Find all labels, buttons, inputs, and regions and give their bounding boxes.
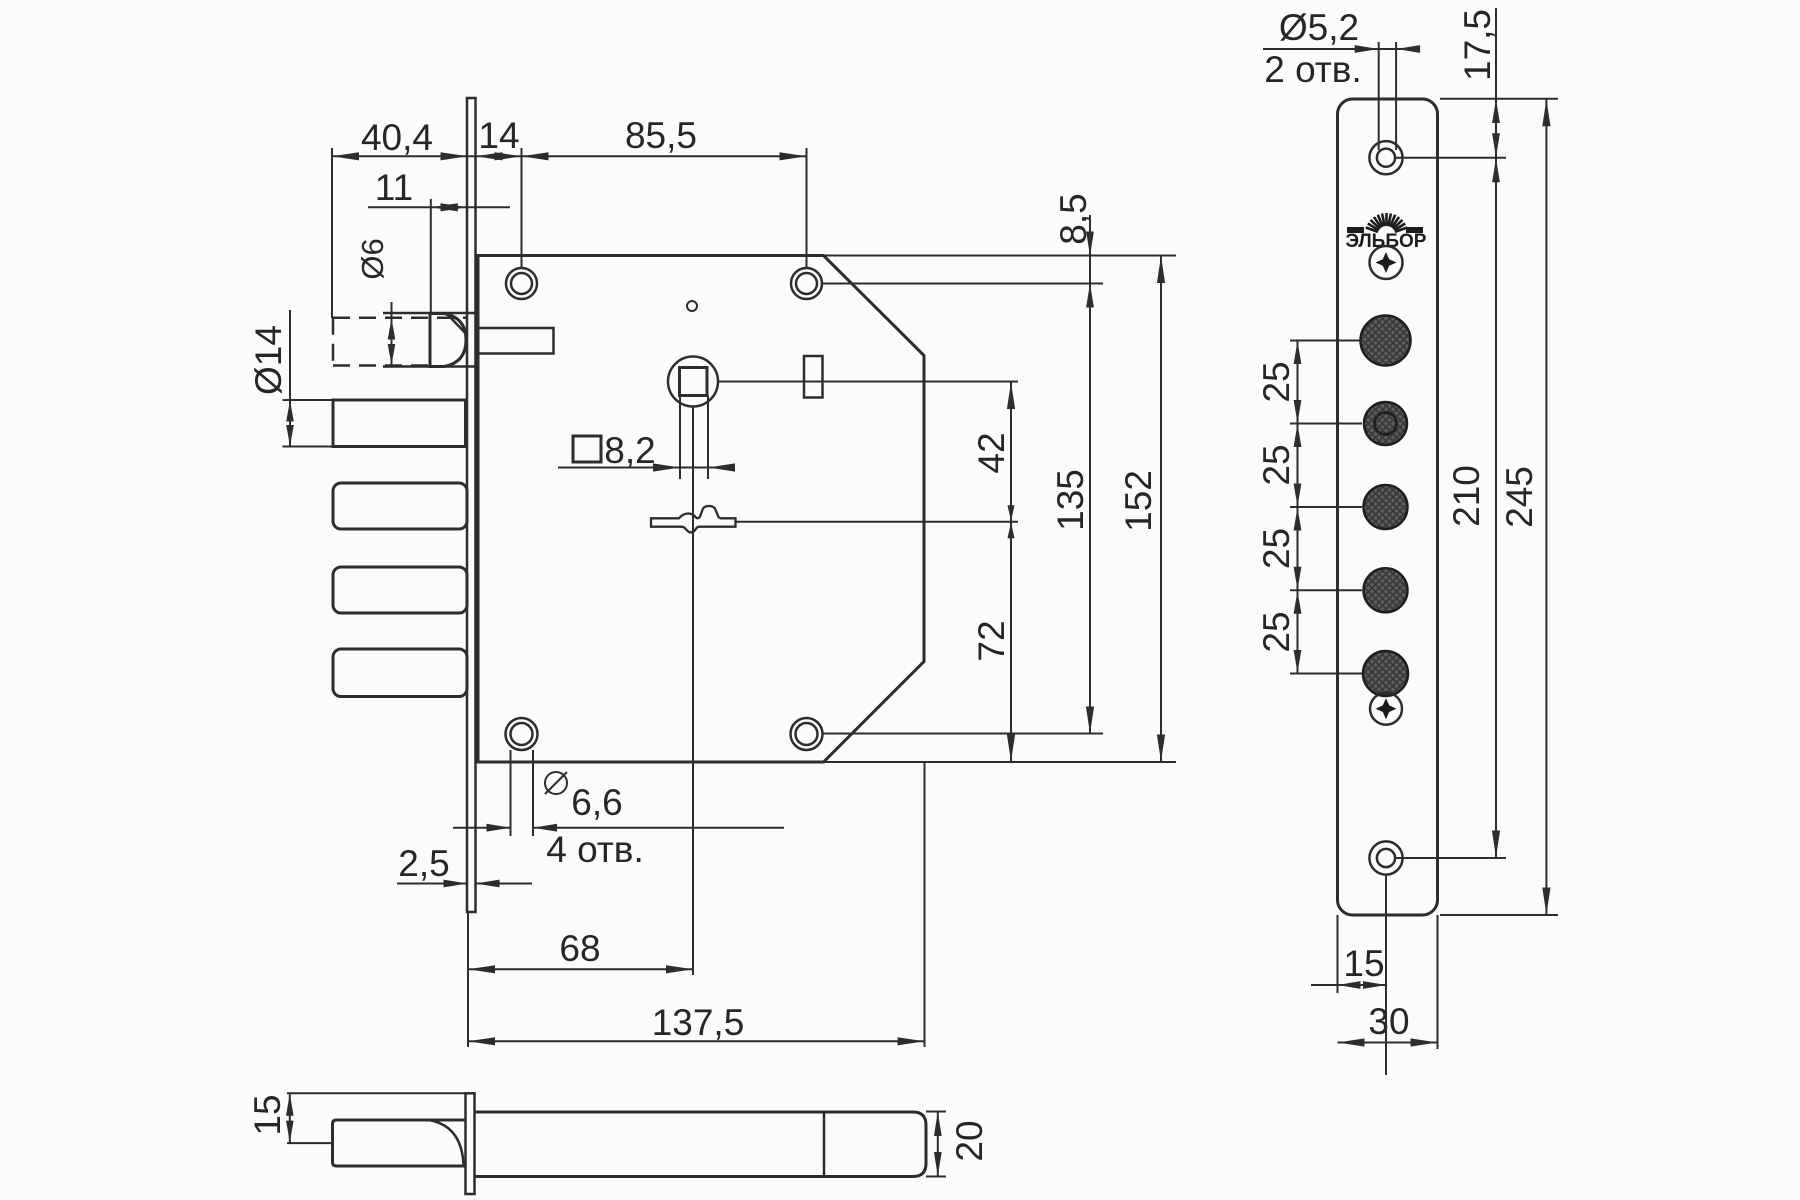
svg-text:25: 25 (1256, 611, 1297, 652)
armored bolt 4 (1364, 568, 1408, 612)
dimension 8.5 and 135 (1086, 215, 1094, 734)
label O6.6 diameter symbol (545, 772, 567, 794)
svg-text:210: 210 (1446, 465, 1487, 527)
top-left mounting hole (506, 268, 537, 299)
dimension 17.5 and 210 (1492, 8, 1500, 858)
dimension 15 bottom view (286, 1093, 466, 1143)
labels 25 rotated (1256, 361, 1297, 652)
svg-text:Ø14: Ø14 (248, 325, 289, 395)
plate bottom extension line (1440, 914, 1558, 916)
dimension 137.5 (468, 1037, 925, 1045)
extension line left bottom (467, 913, 469, 1047)
ELBOR logo sunburst (1347, 213, 1423, 233)
svg-text:68: 68 (559, 928, 600, 969)
dimension 8.2 (558, 463, 735, 471)
svg-text:245: 245 (1499, 466, 1540, 528)
bottom view lock body bar (475, 1112, 927, 1177)
bottom view faceplate plate (466, 1093, 475, 1194)
svg-text:30: 30 (1368, 1001, 1409, 1042)
deadbolt bar 1 (333, 400, 466, 447)
svg-text:72: 72 (971, 620, 1012, 661)
small pin hole (687, 301, 697, 311)
keyhole horizontal line to right (736, 521, 1018, 523)
dimension 20 bottom view (926, 1112, 946, 1177)
dimension 152 (1157, 256, 1165, 763)
dimension line O6.6 (453, 824, 784, 832)
faceplate bottom screw hole (1369, 841, 1402, 874)
label square symbol (573, 436, 601, 462)
dimension arrows latch diameter (388, 302, 396, 366)
armored bolt 1 (1361, 316, 1411, 366)
top-right mounting hole (791, 268, 822, 299)
dimension O5.2 two holes (1263, 42, 1420, 150)
top dimension line 40.4 / 14 / 85.5 (332, 152, 807, 160)
svg-text:25: 25 (1256, 361, 1297, 402)
dimension 2.5 (397, 880, 532, 888)
armored bolt 3 (1364, 485, 1408, 529)
deadbolt bar 4 (333, 649, 467, 697)
bottom view latch (333, 1120, 466, 1166)
spindle horizontal line to right (718, 381, 1018, 383)
svg-text:8,5: 8,5 (1053, 193, 1094, 244)
svg-text:25: 25 (1256, 528, 1297, 569)
bottom-right mounting hole (791, 718, 823, 750)
dimension O14 (286, 310, 294, 447)
svg-text:2 отв.: 2 отв. (1264, 49, 1362, 90)
dimension 30 faceplate (1338, 915, 1438, 1049)
body top extension line right (824, 255, 1176, 257)
O6.6 hole extension lines (511, 750, 534, 836)
faceplate front view plate (1338, 99, 1438, 915)
armored bolt 2 (1364, 402, 1407, 445)
dimension 25 stack (1294, 341, 1302, 674)
plate top extension line (1440, 98, 1558, 100)
svg-text:11: 11 (375, 167, 413, 208)
extension line body right bottom (924, 762, 926, 1047)
faceplate strip (edge view) (467, 98, 476, 912)
bottom-left mounting hole (506, 718, 538, 750)
svg-text:137,5: 137,5 (652, 1002, 745, 1043)
latch extended outline dashed (333, 318, 466, 366)
svg-text:135: 135 (1050, 469, 1091, 531)
keyhole slot (651, 506, 736, 532)
svg-text:25: 25 (1256, 444, 1297, 485)
svg-text:2,5: 2,5 (398, 843, 449, 884)
small slot opening (804, 356, 823, 398)
svg-text:20: 20 (949, 1120, 990, 1161)
square hole extension lines (680, 396, 708, 480)
latch housing top line (383, 312, 477, 315)
dimension 68 (468, 965, 693, 973)
top hole center line right (1396, 157, 1506, 159)
bolt spacing extension lines (1290, 341, 1362, 674)
dimension 245 (1542, 99, 1550, 915)
svg-text:15: 15 (1343, 943, 1384, 984)
phillips screw top (1370, 246, 1403, 279)
dimension 42 and 72 (1007, 382, 1015, 763)
latch tail rod (478, 328, 554, 354)
svg-text:40,4: 40,4 (361, 117, 433, 158)
svg-text:14: 14 (478, 115, 519, 156)
extension line top-right hole (806, 148, 808, 268)
bottom hole center line down (1385, 875, 1387, 1076)
lock body outline (front view) (478, 256, 924, 763)
deadbolt bar 2 (333, 483, 467, 529)
armored bolt 5 (1363, 651, 1408, 696)
svg-text:4 отв.: 4 отв. (546, 829, 644, 870)
extension line top-left hole (521, 148, 523, 268)
dimension 15 faceplate (1311, 915, 1386, 993)
spindle hub circle (668, 357, 718, 407)
faceplate top screw hole (1369, 141, 1402, 174)
square spindle hole 8.2 (680, 368, 708, 396)
phillips screw bottom (1370, 693, 1402, 725)
latch bolt head (430, 314, 466, 367)
svg-text:Ø5,2: Ø5,2 (1279, 7, 1359, 48)
extension line left of 40.4 (331, 148, 333, 318)
dimension 11 (368, 199, 510, 314)
bottom hole line extension right (822, 733, 1103, 735)
latch housing bottom line (383, 365, 477, 368)
svg-text:152: 152 (1118, 470, 1159, 532)
svg-text:17,5: 17,5 (1457, 9, 1498, 81)
bottom hole center line right (1396, 857, 1506, 859)
svg-text:Ø6: Ø6 (355, 238, 390, 279)
body bottom extension line right (824, 761, 1176, 763)
svg-text:42: 42 (971, 432, 1012, 473)
deadbolt bar 3 (333, 567, 467, 613)
svg-text:ЭЛЬБОР: ЭЛЬБОР (1346, 231, 1427, 252)
svg-text:85,5: 85,5 (625, 115, 697, 156)
spindle center line vertical (692, 407, 694, 976)
svg-text:15: 15 (247, 1094, 288, 1135)
svg-text:8,2: 8,2 (604, 430, 655, 471)
svg-text:6,6: 6,6 (571, 782, 622, 823)
deadbolt O14 extension lines (283, 400, 334, 447)
top hole line extension right (822, 283, 1103, 285)
